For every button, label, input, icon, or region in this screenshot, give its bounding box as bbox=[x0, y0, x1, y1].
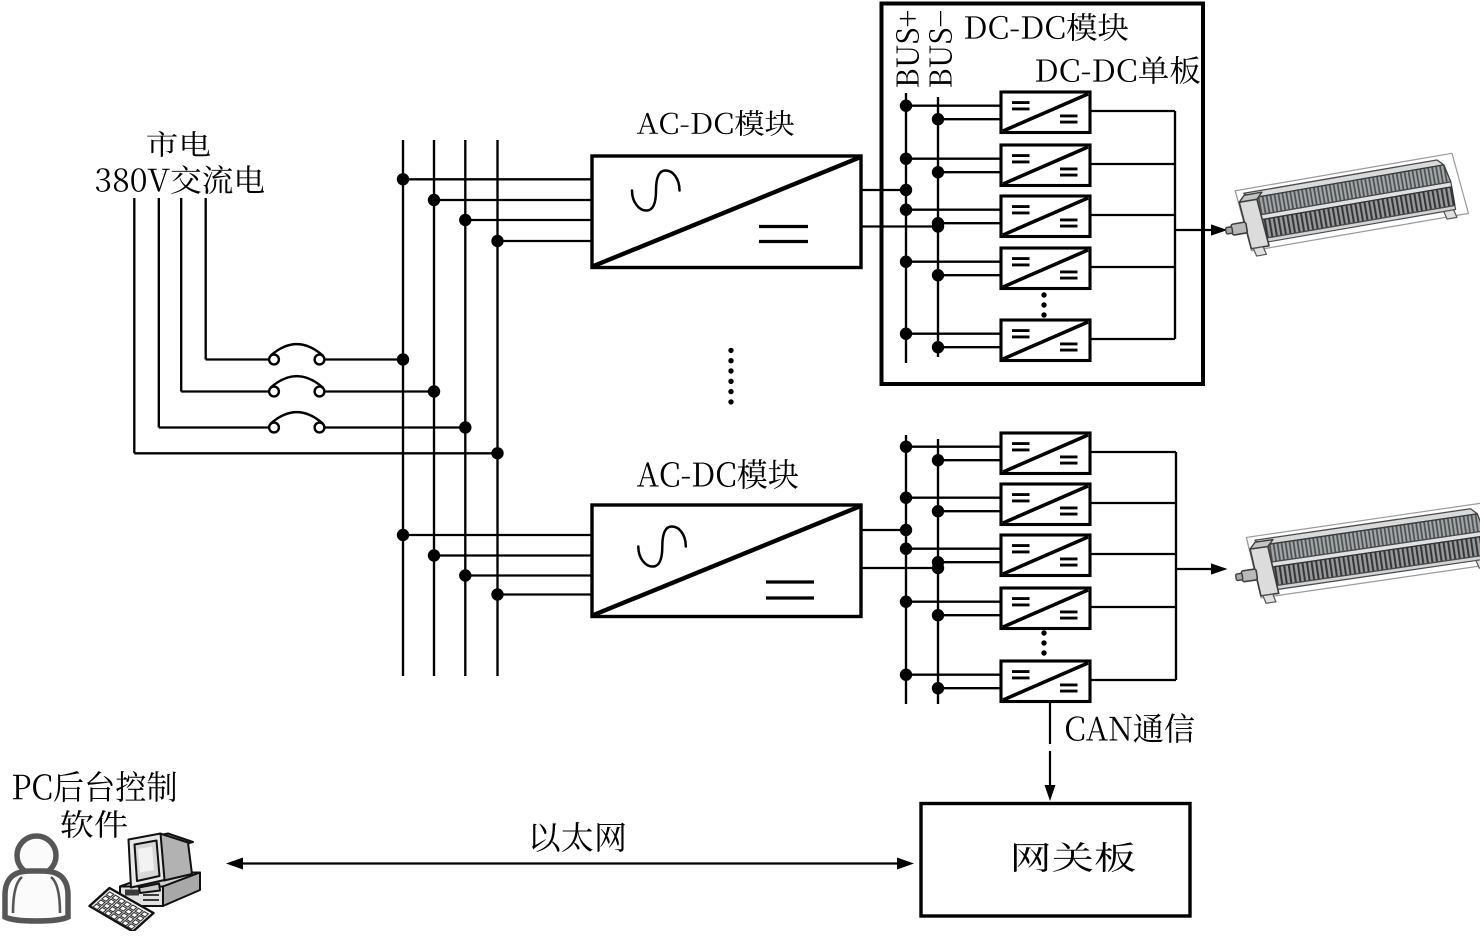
junction bus1 feed2 bbox=[397, 529, 409, 541]
label: CAN communication CAN通信 bbox=[1066, 713, 1194, 743]
junction bus3 feed1 bbox=[459, 214, 471, 226]
junction BUS- upper4 bbox=[932, 269, 944, 281]
wire bus2 to AC-DC module1 bbox=[434, 199, 592, 201]
ellipsis: more upper converters bbox=[1041, 292, 1046, 317]
wire bus2 to AC-DC module2 bbox=[434, 554, 592, 556]
junction bus3 feed2 bbox=[459, 569, 471, 581]
wire upper group output feed bbox=[1175, 229, 1214, 231]
junction BUS+ lower3 bbox=[900, 543, 912, 555]
wire BUS- to lower converter4 bbox=[938, 614, 1001, 616]
wire BUS- to upper converter4 bbox=[938, 274, 1001, 276]
wire upper converter4 output bbox=[1090, 266, 1175, 268]
wire BUS- rail lower bbox=[937, 439, 939, 704]
load busbar 1 (upper) bbox=[1219, 152, 1469, 260]
ethernet double arrow 以太网 bbox=[226, 858, 914, 870]
junction module1/BUS+ bbox=[900, 184, 912, 196]
junction BUS+ lower1 bbox=[900, 441, 912, 453]
PC keyboard bbox=[90, 888, 154, 932]
label: AC-DC module 1 bbox=[637, 110, 794, 136]
label: DC-DC board 单板 bbox=[1036, 56, 1200, 84]
wire AC-DC module2 + output to BUS+ bbox=[861, 529, 906, 531]
junction BUS- lower3 bbox=[932, 556, 944, 568]
wire upper converter1 output bbox=[1090, 110, 1175, 112]
wire BUS+ rail upper bbox=[905, 93, 907, 363]
wire bus3 to AC-DC module2 bbox=[465, 574, 592, 576]
junction BUS+ upper1 bbox=[900, 100, 912, 112]
junction bus1 feed1 bbox=[397, 173, 409, 185]
junction bus3/S3 bbox=[459, 421, 471, 433]
DC-DC converter upper4 bbox=[1001, 248, 1090, 289]
wire bus4 to AC-DC module1 bbox=[498, 240, 593, 242]
gateway board box 网关板 bbox=[921, 804, 1190, 917]
arrow to load busbar (lower) bbox=[1211, 563, 1228, 574]
DC-DC converter upper1 bbox=[1001, 92, 1090, 133]
label: mains 市电 bbox=[147, 131, 210, 157]
junction BUS+ lower2 bbox=[900, 492, 912, 504]
AC-DC module U1 bbox=[592, 156, 861, 268]
PC desktop computer icon bbox=[120, 834, 200, 907]
wire phase A vertical drop bbox=[205, 198, 207, 360]
DC-DC converter upper3 bbox=[1001, 196, 1090, 237]
arrow to load busbar (upper) bbox=[1211, 224, 1228, 235]
wire BUS- to upper converter2 bbox=[938, 171, 1001, 173]
net label BUS+ (upper) bbox=[896, 11, 919, 87]
junction module2/BUS- bbox=[932, 562, 944, 574]
wire BUS- to lower converter5 bbox=[938, 687, 1001, 689]
wire bus3 to AC-DC module1 bbox=[465, 219, 592, 221]
DC-DC converter lower5 bbox=[1001, 661, 1090, 702]
AC-DC module U2 bbox=[592, 505, 861, 617]
wire BUS+ rail lower bbox=[905, 435, 907, 704]
wire lower converter5 output bbox=[1090, 679, 1176, 681]
wire phase C vertical drop bbox=[158, 198, 160, 428]
wire AC bus line 2 bbox=[433, 140, 435, 676]
wire upper output collection rail bbox=[1174, 111, 1176, 339]
junction bus4/N bbox=[491, 447, 503, 459]
DC-DC converter lower4 bbox=[1001, 588, 1090, 629]
wire AC-DC module1 + output to BUS+ bbox=[861, 189, 906, 191]
wire AC bus line 1 bbox=[402, 140, 404, 676]
breaker S2 bbox=[269, 376, 324, 396]
DC-DC converter lower2 bbox=[1001, 484, 1090, 525]
junction BUS- upper3 bbox=[932, 217, 944, 229]
junction BUS- upper2 bbox=[932, 166, 944, 178]
operator person icon bbox=[5, 836, 68, 921]
wire BUS- to upper converter1 bbox=[938, 118, 1001, 120]
wire BUS- to lower converter3 bbox=[938, 561, 1001, 563]
breaker S1 bbox=[269, 344, 324, 364]
wire phase B vertical drop bbox=[180, 198, 182, 392]
label: 380V AC 380V交流电 bbox=[96, 165, 264, 194]
net label BUS- (upper) bbox=[929, 11, 952, 87]
wire upper converter5 output bbox=[1090, 338, 1175, 340]
label: DC-DC module 模块 bbox=[965, 13, 1128, 41]
wire bus4 to AC-DC module2 bbox=[498, 593, 593, 595]
wire BUS+ to lower converter2 bbox=[906, 497, 1001, 499]
wire bus1 to AC-DC module2 bbox=[403, 534, 592, 536]
DC-DC module cabinet box bbox=[882, 4, 1204, 385]
wire phase B into breaker S2 bbox=[181, 390, 269, 392]
load busbar 2 (lower) bbox=[1230, 502, 1480, 607]
wire BUS+ to lower converter1 bbox=[906, 446, 1001, 448]
breaker S3 bbox=[269, 412, 324, 432]
wire BUS+ to lower converter5 bbox=[906, 674, 1001, 676]
wire BUS- to upper converter3 bbox=[938, 222, 1001, 224]
wire BUS- to lower converter2 bbox=[938, 510, 1001, 512]
ellipsis: more lower converters bbox=[1041, 630, 1046, 655]
wire phase C into breaker S3 bbox=[159, 426, 269, 428]
junction bus2 feed1 bbox=[428, 194, 440, 206]
wire lower converter2 output bbox=[1090, 502, 1176, 504]
junction BUS- lower5 bbox=[932, 682, 944, 694]
ellipsis: more AC-DC modules bbox=[728, 348, 733, 405]
wire BUS+ to lower converter3 bbox=[906, 548, 1001, 550]
wire breaker S2 output to bus 2 bbox=[324, 390, 434, 392]
wire bus1 to AC-DC module1 bbox=[403, 178, 592, 180]
wire BUS+ to upper converter5 bbox=[906, 333, 1001, 335]
junction module1/BUS- bbox=[932, 220, 944, 232]
junction bus4 feed2 bbox=[491, 588, 503, 600]
label: PC backend control bbox=[13, 771, 176, 802]
wire BUS+ to upper converter3 bbox=[906, 209, 1001, 211]
label: software 软件 bbox=[61, 810, 127, 838]
wire upper converter2 output bbox=[1090, 163, 1175, 165]
label: gateway board 网关板 bbox=[1014, 842, 1135, 872]
wire lower converter3 output bbox=[1090, 553, 1176, 555]
junction BUS+ lower4 bbox=[900, 596, 912, 608]
junction bus1/S1 bbox=[397, 353, 409, 365]
DC-DC converter upper2 bbox=[1001, 145, 1090, 186]
junction BUS+ upper5 bbox=[900, 328, 912, 340]
DC-DC converter upper5 bbox=[1001, 320, 1090, 361]
wire AC-DC module1 - output to BUS- bbox=[861, 225, 938, 227]
junction bus2/S2 bbox=[428, 385, 440, 397]
wire BUS- to upper converter5 bbox=[938, 346, 1001, 348]
junction BUS- lower2 bbox=[932, 505, 944, 517]
junction BUS+ upper2 bbox=[900, 153, 912, 165]
junction BUS+ lower5 bbox=[900, 669, 912, 681]
DC-DC converter lower1 bbox=[1001, 433, 1090, 474]
wire breaker S3 output to bus 3 bbox=[324, 426, 465, 428]
wire BUS+ to upper converter2 bbox=[906, 158, 1001, 160]
wire lower output collection rail bbox=[1175, 452, 1177, 680]
wire lower converter4 output bbox=[1090, 606, 1176, 608]
wire lower group output feed bbox=[1176, 568, 1214, 570]
wire BUS- rail upper bbox=[937, 97, 939, 357]
junction BUS+ upper4 bbox=[900, 256, 912, 268]
junction BUS- lower4 bbox=[932, 609, 944, 621]
CAN bus dashed arrow bbox=[1045, 703, 1056, 801]
wire AC bus line 3 bbox=[464, 140, 466, 676]
wire BUS- to lower converter1 bbox=[938, 459, 1001, 461]
junction BUS- upper5 bbox=[932, 341, 944, 353]
wire phase N horizontal to bus 4 bbox=[134, 452, 497, 454]
junction bus4 feed1 bbox=[491, 235, 503, 247]
wire AC-DC module2 - output to BUS- bbox=[861, 567, 938, 569]
DC-DC converter lower3 bbox=[1001, 535, 1090, 576]
junction module2/BUS+ bbox=[900, 524, 912, 536]
wire breaker S1 output to bus 1 bbox=[324, 358, 403, 360]
junction bus2 feed2 bbox=[428, 549, 440, 561]
wire phase N vertical drop bbox=[133, 198, 135, 453]
label: ethernet 以太网 bbox=[532, 822, 625, 852]
wire upper converter3 output bbox=[1090, 214, 1175, 216]
wire BUS+ to upper converter1 bbox=[906, 105, 1001, 107]
junction BUS- upper1 bbox=[932, 113, 944, 125]
wire BUS+ to lower converter4 bbox=[906, 601, 1001, 603]
junction BUS+ upper3 bbox=[900, 204, 912, 216]
wire AC bus line 4 bbox=[496, 140, 498, 676]
junction BUS- lower1 bbox=[932, 454, 944, 466]
wire lower converter1 output bbox=[1090, 451, 1176, 453]
label: AC-DC module 2 bbox=[637, 459, 798, 489]
wire phase A into breaker S1 bbox=[206, 358, 269, 360]
wire BUS+ to upper converter4 bbox=[906, 261, 1001, 263]
